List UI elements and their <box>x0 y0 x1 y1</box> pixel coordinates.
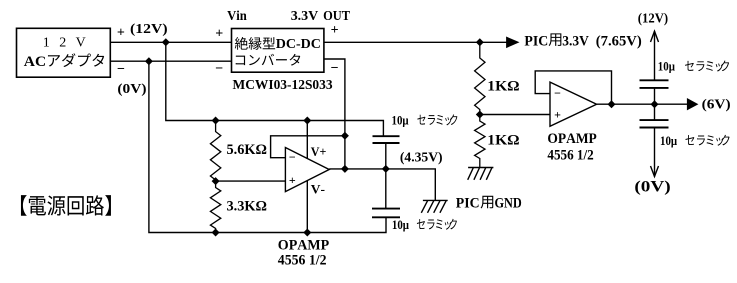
op-amp U2 4556 1/2 triangle <box>285 148 329 192</box>
wire C2 top to 4.35V line <box>385 169 387 209</box>
svg-text:−: − <box>289 150 296 164</box>
node J3 feedback joins U1- drop <box>341 132 349 140</box>
svg-text:4556 1/2: 4556 1/2 <box>547 148 593 164</box>
capacitor C1 10μ ceramic (12V-4.35V) <box>373 135 400 137</box>
node J4 divider midpoint <box>212 177 220 185</box>
svg-text:10μ: 10μ <box>392 217 410 232</box>
resistor R4 1KΩ lower <box>475 115 485 168</box>
ground GND2 PIC用GND symbol <box>421 200 447 212</box>
arrow to +12V (up) <box>651 31 659 42</box>
wire adapter - output <box>110 60 231 62</box>
capacitor C4 10μ ceramic (6V-0V) <box>640 119 669 121</box>
module U1: isolated DC-DC converter box <box>232 29 324 73</box>
svg-text:3.3V: 3.3V <box>562 33 589 49</box>
op-amp U3 4556 1/2 triangle <box>550 82 597 126</box>
svg-text:12V: 12V <box>43 35 95 50</box>
svg-text:−: − <box>554 86 561 100</box>
svg-text:(12V): (12V) <box>638 11 669 26</box>
node J10 3.3V tap <box>476 38 484 46</box>
svg-text:OPAMP: OPAMP <box>278 238 329 254</box>
node J7 V+ on 12V rail <box>303 117 311 125</box>
svg-text:(7.65V): (7.65V) <box>596 33 642 49</box>
svg-text:+: + <box>331 23 339 38</box>
svg-text:AC: AC <box>24 54 46 70</box>
capacitor C3 10μ ceramic (12V-6V) <box>640 79 669 81</box>
wire C1 bottom to 4.35V line <box>385 143 387 169</box>
svg-text:+: + <box>289 173 296 187</box>
wire U2 feedback loop <box>271 136 345 158</box>
label U1 "コンバータ" <box>236 56 245 66</box>
label title 【電源回路】 <box>21 195 27 216</box>
svg-text:V-: V- <box>311 182 325 197</box>
svg-text:PIC: PIC <box>456 196 480 212</box>
svg-text:10μ: 10μ <box>660 133 678 148</box>
wire 12V to C3 <box>654 31 656 80</box>
svg-text:PIC: PIC <box>524 33 548 49</box>
node J13 R1 top on 12V rail <box>212 117 220 125</box>
wire U2 output 4.35V line <box>329 169 435 201</box>
svg-text:DC-DC: DC-DC <box>276 37 321 52</box>
node J9 R2 bottom on 0V rail <box>212 229 220 237</box>
svg-text:3.3V: 3.3V <box>291 9 319 24</box>
wire C3 to 6V node <box>654 88 656 120</box>
node J1 +12V tap <box>162 38 170 46</box>
svg-text:GND: GND <box>495 196 522 212</box>
svg-text:(6V): (6V) <box>702 97 731 112</box>
arrow to 0V (down) <box>651 166 659 177</box>
wire C4 to 0V arrow <box>654 128 656 177</box>
svg-text:−: − <box>331 61 339 76</box>
svg-text:(0V): (0V) <box>634 179 670 196</box>
svg-text:4556 1/2: 4556 1/2 <box>278 253 327 269</box>
svg-text:(12V): (12V) <box>130 22 168 37</box>
wire U1 - output to virtual ground <box>324 59 345 169</box>
svg-text:+: + <box>554 108 561 122</box>
node J6 C1/C2 tap on 4.35V line <box>382 165 390 173</box>
wire divider mid to U3 + input <box>480 114 550 116</box>
wire U3 feedback loop <box>535 71 611 104</box>
wire adapter + output <box>110 41 231 43</box>
resistor R2 3.3KΩ <box>210 181 220 232</box>
resistor R3 1KΩ upper <box>475 42 485 114</box>
wire 0V drop to bottom rail <box>149 61 386 232</box>
wire +12V drop to 12V rail <box>166 42 384 136</box>
node J11 divider mid <box>476 111 484 119</box>
node J5 output meets U1- drop <box>341 165 349 173</box>
svg-text:+: + <box>117 25 125 40</box>
wire U2 V- to 0V rail <box>306 180 308 232</box>
ground GND1 below R4 <box>468 168 494 180</box>
power source PS1: 12V AC adapter box <box>17 28 111 77</box>
svg-text:3.3KΩ: 3.3KΩ <box>227 199 268 215</box>
capacitor C2 10μ ceramic (4.35V-0V) <box>372 208 400 210</box>
svg-text:OPAMP: OPAMP <box>547 131 596 147</box>
svg-text:MCWI03-12S033: MCWI03-12S033 <box>233 78 333 93</box>
wire divider midpoint to op-amp U2 + input <box>216 180 286 182</box>
node J14 6V node <box>651 100 659 108</box>
svg-text:(4.35V): (4.35V) <box>400 151 443 166</box>
svg-text:V+: V+ <box>311 144 327 159</box>
node J8 V- on 0V rail <box>303 229 311 237</box>
svg-text:10μ: 10μ <box>392 112 410 127</box>
resistor R1 5.6KΩ <box>210 121 220 182</box>
svg-text:Vin: Vin <box>227 9 247 24</box>
svg-text:5.6KΩ: 5.6KΩ <box>227 142 268 158</box>
wire U3 output 6V line <box>597 103 688 105</box>
svg-text:−: − <box>117 62 125 77</box>
arrow PIC 3.3V output <box>506 37 519 49</box>
svg-text:−: − <box>215 62 223 77</box>
svg-text:+: + <box>215 26 223 41</box>
svg-text:1KΩ: 1KΩ <box>487 79 519 95</box>
arrow 6V output <box>687 98 699 110</box>
node J12 U3 output/feedback <box>608 100 616 108</box>
svg-text:1KΩ: 1KΩ <box>487 133 519 149</box>
label U1 "絶縁型DC-DC" <box>235 37 248 50</box>
svg-text:OUT: OUT <box>323 9 351 24</box>
node J2 0V tap <box>145 57 153 65</box>
svg-text:(0V): (0V) <box>117 82 146 97</box>
svg-text:10μ: 10μ <box>658 59 676 74</box>
wire U2 V+ to 12V rail <box>306 121 308 160</box>
wire U1 3.3V output <box>324 41 507 43</box>
